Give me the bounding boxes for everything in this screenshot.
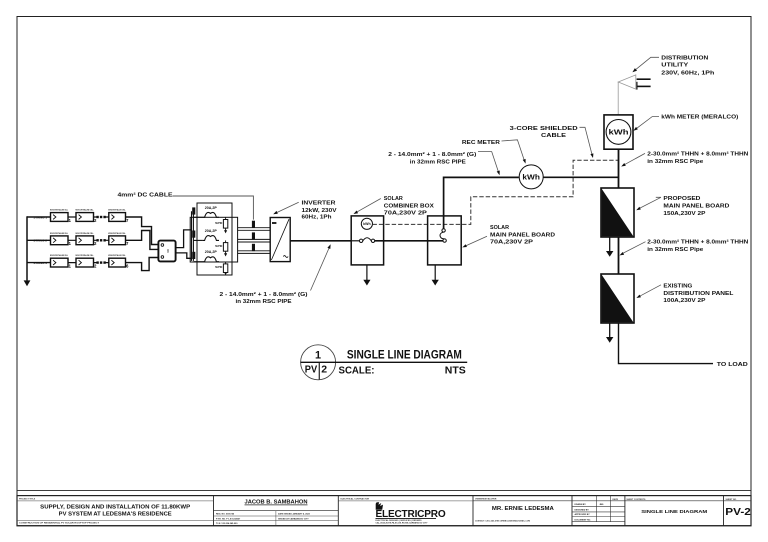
svg-text:20A,2P: 20A,2P bbox=[205, 250, 218, 254]
label kWh METER (MERALCO) bbox=[661, 115, 738, 121]
PV module string 3 module 1 bbox=[50, 254, 72, 268]
svg-text:kWh METER (MERALCO): kWh METER (MERALCO) bbox=[661, 115, 738, 121]
svg-text:MAIN PANEL BOARD: MAIN PANEL BOARD bbox=[663, 203, 729, 209]
svg-text:SCALE:: SCALE: bbox=[339, 365, 375, 376]
wire DC pair 3 combiner to inverter bbox=[238, 251, 271, 254]
svg-text:DATE: DATE bbox=[613, 498, 619, 501]
svg-text:DOCUMENT NO.: DOCUMENT NO. bbox=[575, 519, 592, 521]
svg-text:SPD: SPD bbox=[215, 221, 222, 225]
svg-text:MONOCRYSTALLINE CELL: MONOCRYSTALLINE CELL bbox=[50, 254, 69, 257]
label DC/AC cable spec top bbox=[388, 151, 476, 165]
wire string 1 feeder bbox=[27, 216, 51, 218]
svg-text:12kW, 230V: 12kW, 230V bbox=[302, 208, 337, 214]
leader thhn 1 bbox=[621, 153, 645, 166]
wire PV negative bus bbox=[26, 216, 28, 280]
svg-text:kWh: kWh bbox=[609, 127, 629, 136]
SPD surge protector SPD1 bbox=[215, 217, 228, 233]
svg-text:1: 1 bbox=[315, 350, 321, 362]
svg-text:230V, 60Hz, 1Ph: 230V, 60Hz, 1Ph bbox=[661, 71, 715, 77]
wire DC switch to combiner input A bbox=[176, 230, 192, 248]
leader solar combiner bbox=[354, 199, 381, 215]
breaker CB2 20A,2P bbox=[202, 229, 219, 241]
svg-text:MR. ERNIE LEDESMA: MR. ERNIE LEDESMA bbox=[492, 506, 554, 512]
wire bus to breaker 1 bbox=[193, 216, 202, 218]
label SOLAR COMBINER BOX bbox=[384, 196, 434, 217]
label 4mm2 DC CABLE bbox=[118, 192, 173, 199]
leader rec meter bbox=[502, 140, 526, 164]
leader kwh meter bbox=[633, 117, 659, 131]
svg-text:70A,230V 2P: 70A,230V 2P bbox=[490, 240, 533, 246]
breaker in solar main panel bbox=[440, 229, 446, 243]
title bubble PV-2 detail 1 bbox=[301, 345, 468, 380]
wire DC pair 1 combiner to inverter bbox=[238, 228, 271, 231]
svg-text:PROJECT TITLE: PROJECT TITLE bbox=[19, 499, 36, 501]
solar main panel board enclosure bbox=[428, 216, 462, 265]
inverter U1 bbox=[270, 218, 290, 262]
existing distribution panel bbox=[601, 274, 634, 323]
title block engineer cell bbox=[214, 500, 339, 526]
wire bus to breaker 3 bbox=[193, 261, 202, 263]
ground arrow solar main panel bbox=[432, 265, 439, 286]
ground arrow proposed panel bbox=[606, 237, 613, 257]
svg-text:JBS: JBS bbox=[599, 504, 604, 506]
svg-text:kWh: kWh bbox=[363, 222, 370, 226]
node STRING 2 label bbox=[34, 239, 48, 243]
proposed main panel board bbox=[601, 188, 634, 237]
svg-text:2: 2 bbox=[321, 364, 327, 376]
ground arrow combiner bbox=[363, 265, 370, 286]
series dots string 1 bbox=[96, 216, 105, 218]
label SCALE NTS bbox=[339, 365, 466, 376]
wire DC pair 2 combiner to inverter bbox=[238, 239, 271, 242]
svg-text:SUPPLY, DESIGN AND INSTALLATIO: SUPPLY, DESIGN AND INSTALLATION OF 11.80… bbox=[40, 504, 191, 510]
distribution utility symbol bbox=[618, 75, 650, 90]
leader proposed panel bbox=[636, 197, 661, 210]
label REC METER bbox=[462, 140, 501, 146]
svg-text:2 - 14.0mm² + 1 - 8.0mm² (G): 2 - 14.0mm² + 1 - 8.0mm² (G) bbox=[220, 291, 308, 298]
svg-text:SINGLE LINE DIAGRAM: SINGLE LINE DIAGRAM bbox=[641, 509, 707, 515]
PV module string 1 module 2 bbox=[76, 209, 98, 223]
label INVERTER bbox=[302, 200, 337, 220]
svg-text:CONTACT: 0-912-345-6789 | ERNI: CONTACT: 0-912-345-6789 | ERNIE.LEDESMA@… bbox=[475, 520, 530, 523]
label EXISTING DISTRIBUTION PANEL bbox=[663, 283, 734, 304]
svg-text:DISTRIBUTION PANEL: DISTRIBUTION PANEL bbox=[663, 291, 734, 297]
svg-text:in 32mm RSC Pipe: in 32mm RSC Pipe bbox=[647, 247, 703, 253]
PV module string 2 module 3 bbox=[108, 232, 129, 246]
svg-text:SOLAR: SOLAR bbox=[384, 196, 404, 202]
svg-text:MONOCRYSTALLINE CELL: MONOCRYSTALLINE CELL bbox=[50, 209, 69, 212]
svg-text:MONOCRYSTALLINE CELL: MONOCRYSTALLINE CELL bbox=[76, 254, 95, 257]
svg-text:150A,230V 2P: 150A,230V 2P bbox=[663, 211, 705, 217]
svg-text:100A,230V 2P: 100A,230V 2P bbox=[663, 298, 705, 304]
ground arrow PV bus bbox=[24, 280, 31, 286]
fuse F2 on DC bus bbox=[192, 231, 195, 238]
svg-text:CONSTRUCTION OF RESIDENTIAL PV: CONSTRUCTION OF RESIDENTIAL PV SOLAR ROO… bbox=[19, 522, 100, 525]
wire string 2 to DC switch bbox=[126, 231, 159, 250]
svg-text:MONOCRYSTALLINE CELL: MONOCRYSTALLINE CELL bbox=[76, 232, 95, 235]
svg-text:CABLE: CABLE bbox=[541, 133, 566, 139]
svg-text:ISSUED AT CARBANGGO CITY: ISSUED AT CARBANGGO CITY bbox=[278, 517, 309, 520]
leader inverter bbox=[273, 202, 299, 214]
leader existing panel bbox=[636, 285, 661, 298]
svg-text:4mm² DC CABLE: 4mm² DC CABLE bbox=[118, 192, 173, 199]
svg-text:in 32mm RSC PIPE: in 32mm RSC PIPE bbox=[236, 299, 292, 305]
svg-text:MAIN PANEL BOARD: MAIN PANEL BOARD bbox=[490, 232, 555, 238]
production meter kWh in combiner bbox=[361, 218, 372, 229]
svg-text:20A,2P: 20A,2P bbox=[205, 229, 218, 233]
wire stub into combiner bbox=[351, 240, 359, 242]
fuse F1 on DC bus bbox=[192, 207, 195, 214]
wire string 2 feeder bbox=[27, 239, 51, 241]
leader cable spec top bbox=[478, 152, 500, 176]
svg-text:DC: DC bbox=[166, 249, 169, 253]
wire inverter AC output bbox=[290, 240, 351, 242]
label 3-CORE SHIELDED CABLE bbox=[510, 126, 578, 139]
wire DC switch to combiner input B bbox=[176, 253, 192, 258]
svg-text:COMBINER BOX: COMBINER BOX bbox=[384, 203, 434, 209]
svg-text:CAL-0034-20378-PA-EC-ES-RS-ME-: CAL-0034-20378-PA-EC-ES-RS-ME-CARBANGGO … bbox=[376, 522, 429, 525]
ground arrow existing panel bbox=[606, 323, 613, 343]
PV module string 3 module 3 bbox=[108, 254, 129, 268]
label THHN run 2 bbox=[647, 239, 748, 253]
svg-text:MONOCRYSTALLINE CELL: MONOCRYSTALLINE CELL bbox=[76, 209, 95, 212]
svg-text:P.T.R. NO. P 1-B 1234567: P.T.R. NO. P 1-B 1234567 bbox=[216, 517, 241, 520]
wire bus to breaker 2 bbox=[193, 239, 202, 241]
svg-text:DESIGNED BY: DESIGNED BY bbox=[575, 509, 590, 511]
svg-text:DRAWN BY: DRAWN BY bbox=[575, 503, 587, 506]
label SOLAR MAIN PANEL BOARD bbox=[490, 225, 555, 246]
svg-text:2 - 14.0mm² + 1 - 8.0mm² (G): 2 - 14.0mm² + 1 - 8.0mm² (G) bbox=[388, 151, 476, 158]
PV module string 1 module 3 bbox=[108, 209, 129, 223]
svg-text:PROPOSED: PROPOSED bbox=[663, 196, 700, 202]
svg-text:2-30.0mm² THHN + 8.0mm² THHN: 2-30.0mm² THHN + 8.0mm² THHN bbox=[647, 151, 748, 158]
wire module links string 3 bbox=[68, 262, 109, 264]
leader thhn 2 bbox=[620, 242, 646, 256]
PV module string 1 module 1 bbox=[50, 209, 72, 223]
wire riser solar main panel to REC meter bbox=[444, 177, 519, 228]
breaker CB3 20A,2P bbox=[202, 250, 219, 262]
svg-text:MONOCRYSTALLINE CELL: MONOCRYSTALLINE CELL bbox=[108, 254, 126, 257]
svg-text:kWh: kWh bbox=[522, 173, 540, 182]
svg-text:UTILITY: UTILITY bbox=[661, 63, 688, 69]
svg-text:3-CORE SHIELDED: 3-CORE SHIELDED bbox=[510, 126, 578, 132]
svg-text:in 32mm RSC Pipe: in 32mm RSC Pipe bbox=[647, 159, 703, 165]
PV module string 2 module 2 bbox=[76, 232, 98, 246]
breaker CB1 20A,2P bbox=[202, 206, 219, 218]
svg-text:REC METER: REC METER bbox=[462, 140, 501, 146]
series dots string 2 bbox=[96, 239, 105, 241]
leader ac cable bottom bbox=[311, 244, 331, 290]
wire module links string 2 bbox=[68, 239, 109, 241]
leader 3-core cable bbox=[580, 127, 594, 158]
node STRING 1 label bbox=[34, 215, 48, 219]
wire meter to proposed panel bbox=[618, 149, 620, 188]
leader 4mm2 dc cable bbox=[173, 196, 254, 220]
fuse dc cable marker 1 bbox=[252, 221, 255, 228]
label THHN run 1 bbox=[647, 151, 748, 165]
title block project title cell bbox=[17, 499, 214, 525]
svg-text:PV SYSTEM AT LEDESMA'S RESIDEN: PV SYSTEM AT LEDESMA'S RESIDENCE bbox=[59, 511, 173, 517]
label TO LOAD bbox=[717, 362, 748, 368]
title block sheet contents cell bbox=[625, 499, 724, 515]
title block contractor cell ELECTRICPRO bbox=[338, 498, 473, 525]
svg-text:in 32mm RSC PIPE: in 32mm RSC PIPE bbox=[410, 159, 466, 165]
wire module links string 1 bbox=[68, 216, 109, 218]
svg-text:MONOCRYSTALLINE CELL: MONOCRYSTALLINE CELL bbox=[108, 209, 126, 212]
svg-text:SPD: SPD bbox=[215, 244, 222, 248]
svg-text:MONOCRYSTALLINE CELL: MONOCRYSTALLINE CELL bbox=[50, 232, 69, 235]
svg-text:OWNER/DEVELOPER: OWNER/DEVELOPER bbox=[475, 499, 497, 501]
svg-text:APPROVED BY: APPROVED BY bbox=[575, 513, 591, 516]
label PROPOSED MAIN PANEL BOARD bbox=[663, 196, 729, 217]
fuse dc cable marker 2 bbox=[252, 232, 255, 239]
wire utility drop to meter bbox=[617, 82, 619, 115]
title block owner cell bbox=[473, 499, 572, 523]
svg-text:2-30.0mm² THHN + 8.0mm² THHN: 2-30.0mm² THHN + 8.0mm² THHN bbox=[647, 239, 748, 246]
leader distribution utility bbox=[632, 57, 659, 72]
svg-text:REG. NO. 0001745: REG. NO. 0001745 bbox=[216, 513, 235, 516]
kWh meter MERALCO box bbox=[604, 115, 633, 149]
svg-text:TO LOAD: TO LOAD bbox=[717, 362, 748, 368]
wire REC meter to main bus bbox=[544, 176, 619, 178]
series dots string 3 bbox=[96, 261, 105, 263]
title block frame bbox=[17, 491, 751, 526]
wire string 1 to DC switch bbox=[126, 217, 159, 245]
svg-text:T.I.N. 123-234-345-000: T.I.N. 123-234-345-000 bbox=[216, 522, 238, 525]
svg-text:DATE ISSUED JANUARY 4, 2023: DATE ISSUED JANUARY 4, 2023 bbox=[278, 513, 311, 516]
wire string 3 feeder bbox=[27, 262, 51, 264]
title block sheet number cell bbox=[724, 499, 752, 518]
SPD surge protector SPD3 bbox=[215, 262, 228, 276]
wire to load bbox=[619, 323, 714, 364]
svg-text:SPD: SPD bbox=[215, 265, 222, 269]
combiner enclosure box bbox=[197, 203, 232, 275]
wire proposed to existing panel bbox=[618, 237, 620, 274]
svg-text:70A,230V 2P: 70A,230V 2P bbox=[384, 211, 427, 217]
svg-text:20A,2P: 20A,2P bbox=[205, 206, 218, 210]
node STRING 3 label bbox=[34, 261, 48, 265]
breaker in combiner 70A bbox=[359, 238, 374, 243]
leader solar main panel bbox=[462, 236, 487, 247]
combiner DC bus pair bbox=[192, 211, 194, 261]
svg-text:ELECTRICAL CONTRACTOR: ELECTRICAL CONTRACTOR bbox=[341, 498, 370, 501]
wire combiner to solar main panel bbox=[375, 240, 443, 242]
svg-text:SINGLE LINE DIAGRAM: SINGLE LINE DIAGRAM bbox=[347, 348, 462, 362]
svg-text:EXISTING: EXISTING bbox=[663, 283, 693, 289]
label SINGLE LINE DIAGRAM heading bbox=[347, 348, 462, 362]
fuse dc cable marker 3 bbox=[252, 244, 255, 251]
solar combiner box enclosure bbox=[351, 216, 383, 265]
label AC cable spec bottom bbox=[220, 291, 308, 305]
DC disconnect switch S1 bbox=[158, 241, 175, 262]
SPD surge protector SPD2 bbox=[215, 240, 228, 256]
fuse F3 on DC bus bbox=[192, 252, 195, 259]
svg-text:INVERTER: INVERTER bbox=[302, 200, 337, 206]
svg-text:PV: PV bbox=[305, 364, 318, 375]
svg-text:NTS: NTS bbox=[445, 365, 466, 376]
svg-text:PV-2: PV-2 bbox=[725, 506, 751, 518]
svg-text:60Hz, 1Ph: 60Hz, 1Ph bbox=[302, 215, 332, 221]
REC meter kWh circle bbox=[519, 165, 543, 189]
PV module string 2 module 1 bbox=[50, 232, 72, 246]
svg-text:DISTRIBUTION: DISTRIBUTION bbox=[661, 56, 708, 62]
DC wiring box bbox=[190, 217, 237, 262]
wire 3-core shielded cable (dashed) bbox=[373, 160, 619, 224]
svg-text:MONOCRYSTALLINE CELL: MONOCRYSTALLINE CELL bbox=[108, 232, 126, 235]
svg-text:SOLAR: SOLAR bbox=[490, 225, 510, 231]
wire string 3 to DC switch bbox=[126, 258, 159, 271]
label DISTRIBUTION UTILITY bbox=[661, 56, 715, 77]
title block revision grid bbox=[572, 496, 625, 522]
PV module string 3 module 2 bbox=[76, 254, 98, 268]
